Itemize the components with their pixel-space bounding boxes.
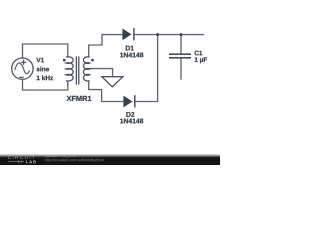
secondary phase dot — [91, 59, 94, 62]
wire C1 top lead — [180, 35, 182, 54]
label V1 — [36, 58, 53, 80]
wire V1 bottom rail to primary bottom — [23, 79, 68, 90]
watermark text line1 — [45, 154, 75, 157]
wire secondary bottom pin staircase to D2 — [89, 81, 124, 102]
wire V1 top to primary — [23, 44, 68, 58]
diode D2 — [123, 95, 134, 107]
wire secondary top pin staircase to D1 — [89, 35, 123, 57]
watermark logo LAB line — [8, 160, 36, 163]
label C1 — [195, 51, 207, 63]
core line right — [78, 56, 80, 84]
wire C1 bottom stub — [180, 59, 182, 79]
transformer XFMR1 — [66, 56, 90, 84]
sine wave — [15, 63, 30, 74]
primary winding — [66, 57, 73, 81]
capacitor C1 — [169, 54, 191, 58]
minus sign — [19, 76, 24, 78]
plus sign — [21, 60, 26, 65]
voltage source V1 — [12, 58, 33, 79]
wire D2 cathode up to output node — [136, 35, 158, 102]
wire center tap to ground — [88, 69, 113, 77]
node junction dot 2 at C1 — [180, 33, 183, 36]
watermark text line2 — [45, 159, 104, 162]
primary phase dot — [63, 59, 66, 62]
secondary winding — [83, 57, 89, 81]
label D1 — [120, 46, 143, 58]
label XFMR1 — [67, 96, 92, 101]
node output junction dot 1 — [156, 33, 159, 36]
ground — [102, 77, 123, 87]
wire D1 cathode to output stub — [135, 34, 204, 36]
watermark logo CIRCUIT — [8, 156, 35, 160]
core line left — [75, 56, 77, 84]
diode D1 — [122, 28, 133, 40]
label D2 — [120, 112, 143, 123]
